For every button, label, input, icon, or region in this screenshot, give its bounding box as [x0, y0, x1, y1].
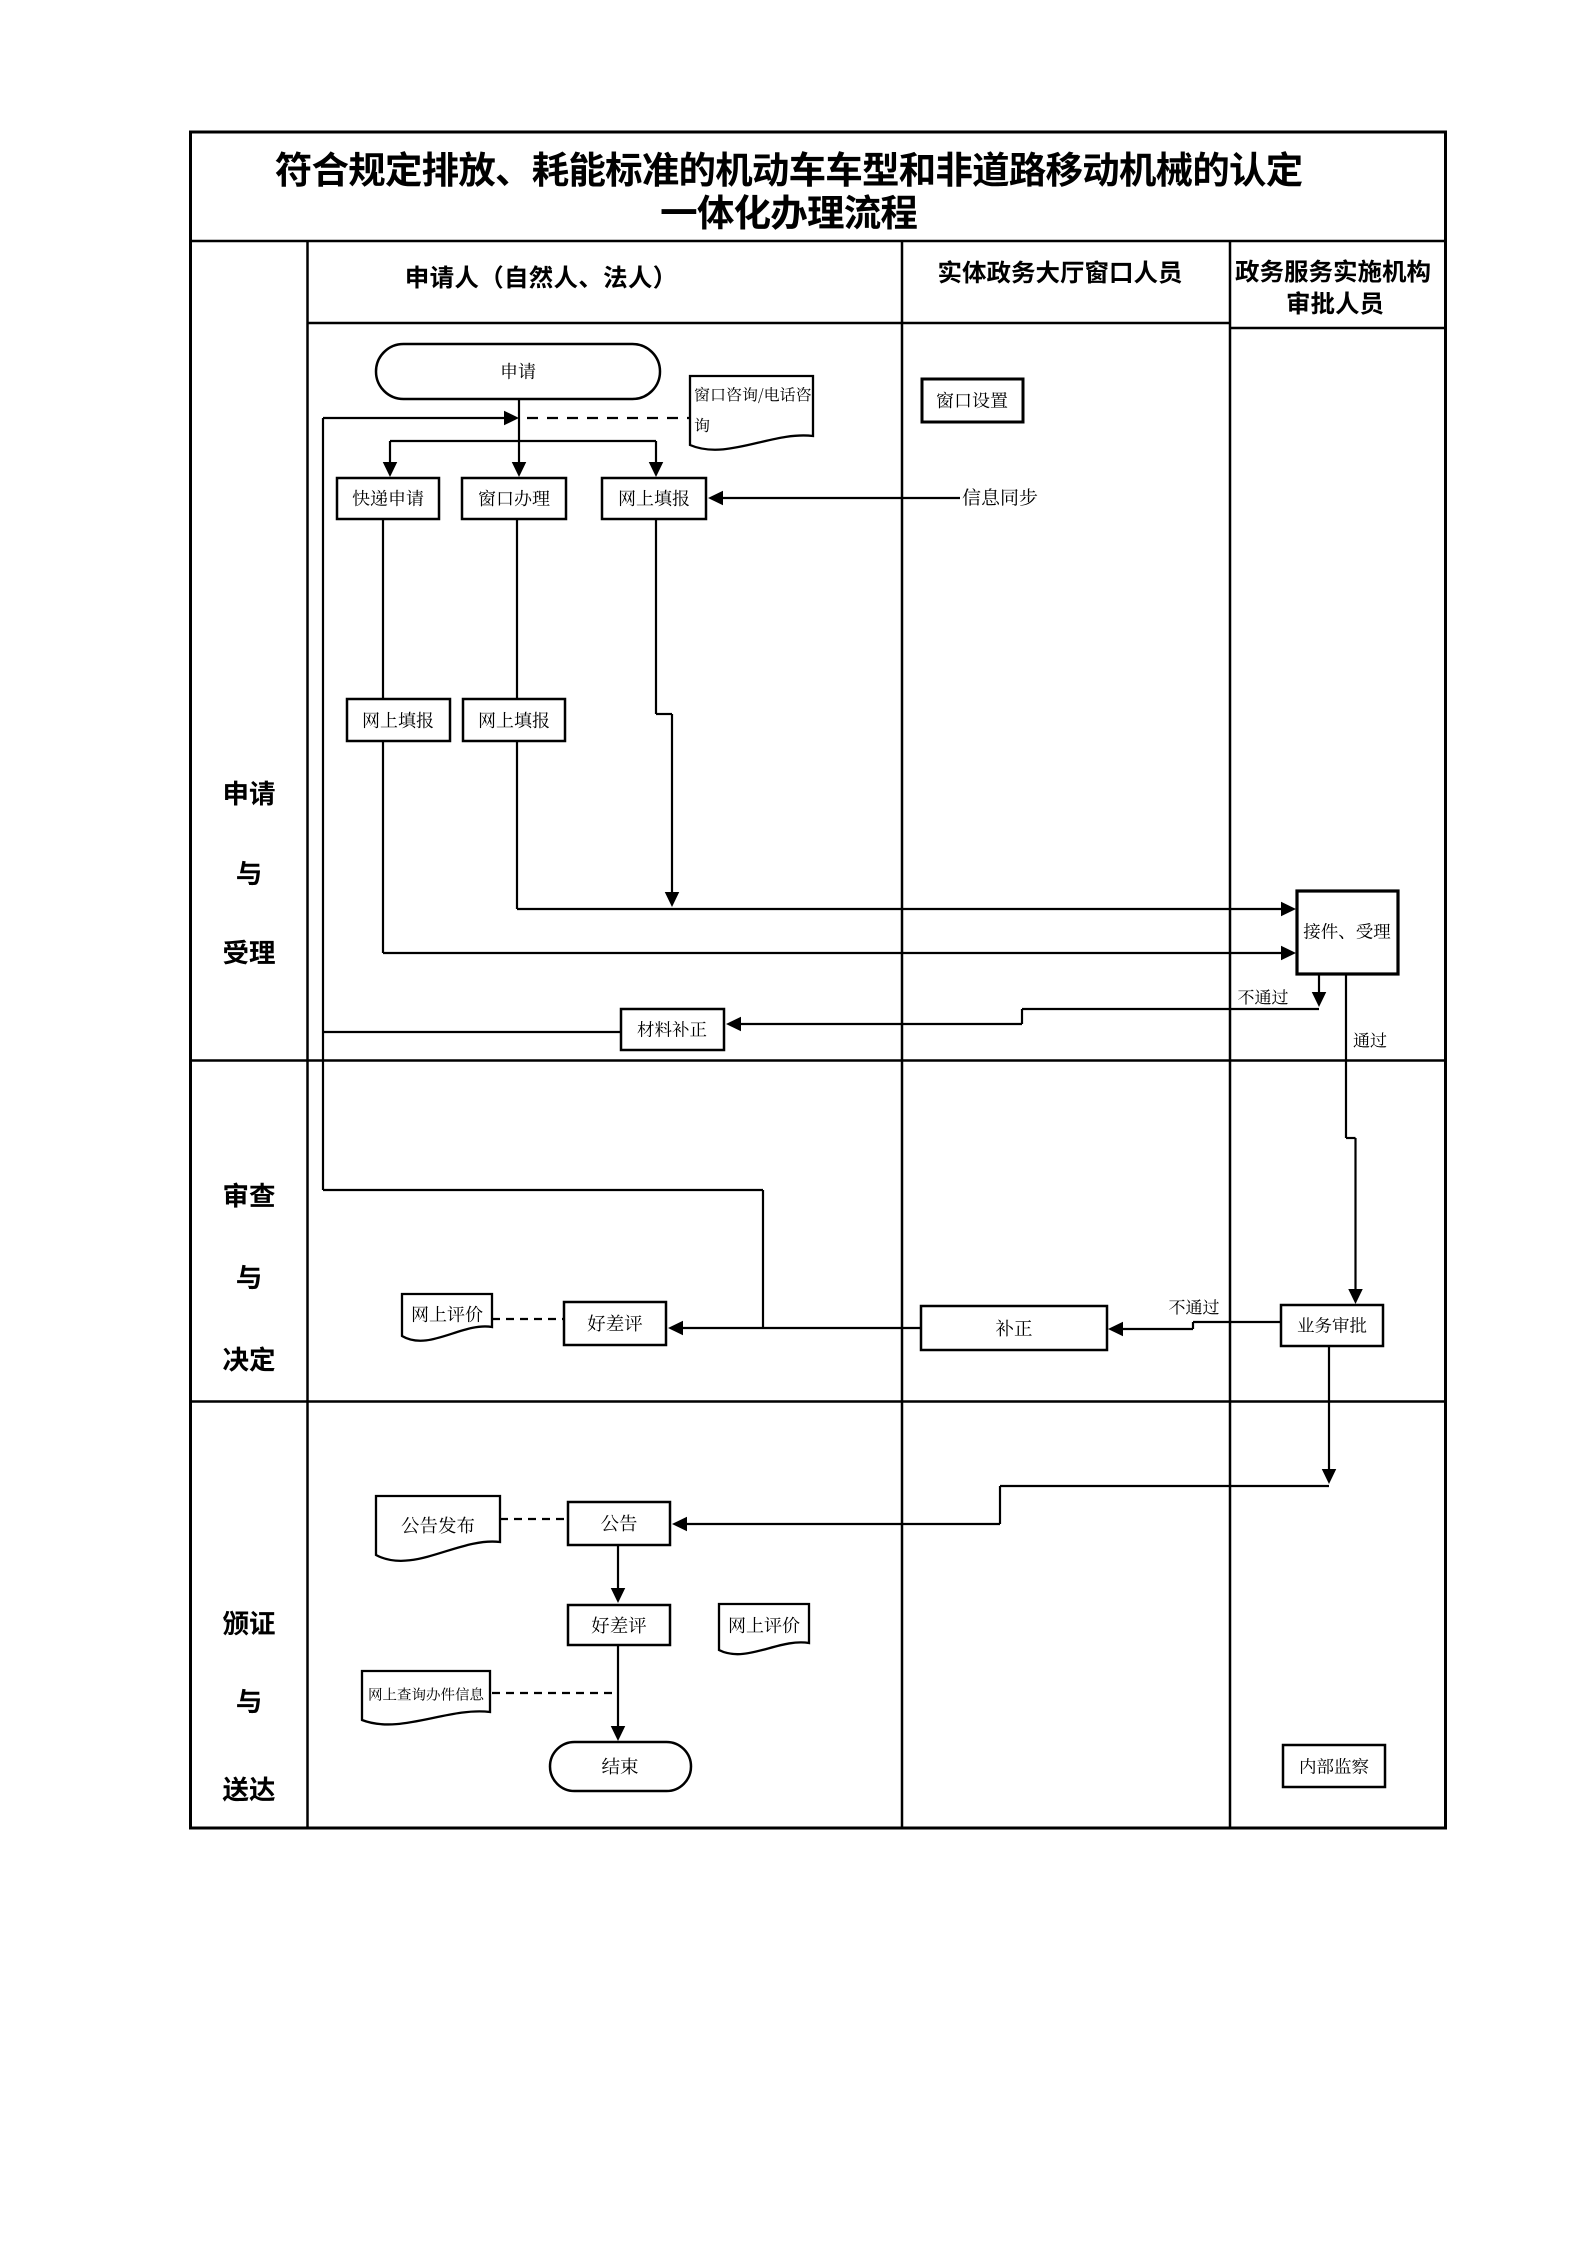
dashed link to 窗口咨询 doc	[527, 417, 690, 419]
box 材料补正	[621, 1009, 724, 1050]
box 接件、受理	[1297, 891, 1398, 974]
box 补正	[921, 1306, 1107, 1350]
box 公告	[568, 1502, 670, 1545]
wire: 申请 to split	[518, 399, 520, 463]
row3 label 送达	[223, 1776, 275, 1801]
box 业务审批	[1281, 1305, 1383, 1346]
box 好差评 bottom	[568, 1605, 670, 1645]
wire 快递申请 to 网上填报1	[382, 519, 384, 699]
wire 窗口办理 to 网上填报2	[516, 519, 518, 699]
table line: title bottom	[191, 240, 1446, 243]
junction wire from left loop	[323, 417, 505, 419]
title line 2	[662, 194, 917, 230]
document 网上评价 mid	[402, 1294, 492, 1341]
wire 网上填报1 to 接件受理	[383, 741, 1296, 960]
arrow into 窗口办理	[512, 462, 527, 477]
wire 网上填报top down	[656, 519, 679, 907]
wire 好差评2 to 结束	[611, 1645, 626, 1741]
long return wire left	[322, 418, 324, 1190]
box 网上填报 lower-mid	[463, 699, 565, 741]
row3 label 与	[237, 1689, 260, 1713]
wire 通过 path	[1346, 974, 1363, 1304]
box 窗口办理	[462, 478, 566, 519]
split bar	[390, 440, 656, 442]
document 窗口咨询/电话咨询	[690, 376, 813, 450]
box 好差评 mid	[564, 1302, 666, 1345]
document 网上查询办件信息	[362, 1671, 490, 1724]
row1 label 申请	[225, 781, 275, 806]
table line: row2/row3 separator	[191, 1400, 1446, 1403]
box 网上填报 lower-left	[347, 699, 450, 741]
label 不通过 row2	[1169, 1299, 1219, 1314]
wire 不通过 down	[1312, 974, 1327, 1007]
table line: lane1/lane2 separator	[901, 241, 904, 1828]
table line: row1/row2 separator	[191, 1059, 1446, 1062]
label 通过	[1354, 1032, 1387, 1047]
wire 信息同步	[708, 491, 960, 506]
row3 label 颁证	[223, 1611, 275, 1636]
arrow into junction	[504, 411, 519, 426]
label 信息同步	[963, 488, 1038, 506]
lane3 header line1	[1235, 259, 1429, 282]
drop to 网上填报	[649, 441, 664, 477]
box 快递申请	[337, 478, 439, 519]
wire 业务审批 down	[1322, 1346, 1337, 1484]
lane3 header line2	[1288, 291, 1383, 315]
title line 1	[276, 151, 1302, 187]
document 公告发布	[376, 1496, 500, 1561]
dashed 网上查询-wire	[492, 1692, 616, 1694]
box 网上填报 top	[602, 478, 706, 519]
table line: label column separator	[306, 241, 309, 1828]
box 内部监察	[1283, 1745, 1385, 1787]
drop to 快递申请	[383, 441, 398, 477]
wire 业务审批 to 补正	[1108, 1322, 1281, 1337]
label 不通过 row1	[1238, 989, 1288, 1004]
row2 label 与	[237, 1265, 260, 1289]
row2 label 决定	[223, 1346, 275, 1371]
table line: header bottom lane3	[1230, 327, 1446, 330]
terminator 申请	[376, 344, 660, 399]
lane2 header	[939, 260, 1181, 284]
box 窗口设置	[922, 379, 1023, 422]
row1 label 与	[237, 861, 260, 885]
wire to 材料补正	[726, 1009, 1319, 1031]
wire to 公告	[672, 1486, 1329, 1531]
wire 公告 to 好差评2	[611, 1545, 626, 1603]
dashed 公告发布-公告	[500, 1518, 568, 1520]
wire 补正 to 好差评	[668, 1321, 921, 1336]
wire 材料补正 left	[323, 1031, 621, 1033]
table outer border	[191, 132, 1446, 1828]
wire return to 好差评	[323, 1190, 763, 1328]
lane1 header	[407, 265, 661, 289]
dashed 网上评价-好差评	[492, 1318, 564, 1320]
table line: header bottom lanes1-2	[308, 322, 1231, 325]
wire 网上填报2 to 接件受理	[517, 741, 1296, 916]
row1 label 受理	[224, 940, 275, 965]
row2 label 审查	[224, 1182, 274, 1207]
terminator 结束	[550, 1742, 691, 1791]
table line: lane2/lane3 separator	[1229, 241, 1232, 1828]
document 网上评价 bottom	[719, 1604, 809, 1654]
